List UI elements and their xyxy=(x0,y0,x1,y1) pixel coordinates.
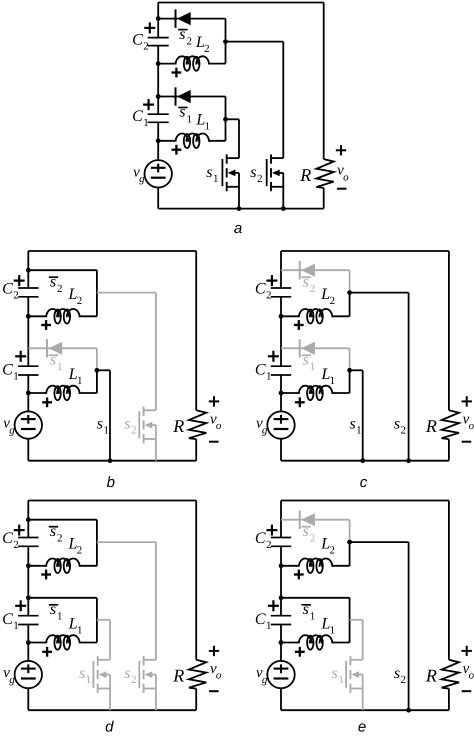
svg-text:1: 1 xyxy=(266,371,272,383)
svg-text:C: C xyxy=(132,108,143,125)
svg-text:o: o xyxy=(469,669,474,681)
svg-text:s: s xyxy=(206,164,212,181)
svg-text:1: 1 xyxy=(266,620,272,632)
svg-text:b: b xyxy=(107,474,115,491)
svg-text:C: C xyxy=(255,530,266,547)
svg-text:1: 1 xyxy=(77,375,83,387)
svg-text:C: C xyxy=(2,281,13,298)
svg-text:1: 1 xyxy=(57,611,63,623)
svg-text:s: s xyxy=(332,665,338,682)
svg-text:s: s xyxy=(179,26,185,43)
svg-text:2: 2 xyxy=(329,545,335,557)
svg-text:2: 2 xyxy=(186,35,192,47)
svg-text:2: 2 xyxy=(401,674,407,686)
svg-text:C: C xyxy=(2,530,13,547)
svg-text:2: 2 xyxy=(266,290,272,302)
svg-text:2: 2 xyxy=(13,539,19,551)
svg-text:R: R xyxy=(299,165,311,185)
svg-text:1: 1 xyxy=(143,117,149,129)
svg-text:R: R xyxy=(425,416,437,436)
svg-text:d: d xyxy=(105,718,114,735)
svg-text:e: e xyxy=(358,718,366,735)
svg-text:s: s xyxy=(250,164,256,181)
svg-text:g: g xyxy=(139,173,145,185)
svg-text:c: c xyxy=(360,474,368,491)
svg-text:2: 2 xyxy=(257,173,263,185)
svg-text:2: 2 xyxy=(13,290,19,302)
svg-text:2: 2 xyxy=(310,533,316,545)
svg-text:1: 1 xyxy=(77,624,83,636)
svg-text:R: R xyxy=(172,416,184,436)
svg-text:2: 2 xyxy=(401,424,407,436)
svg-text:1: 1 xyxy=(13,620,19,632)
svg-text:o: o xyxy=(216,420,222,432)
svg-text:1: 1 xyxy=(356,424,362,436)
svg-text:s: s xyxy=(50,601,56,618)
svg-text:s: s xyxy=(79,665,85,682)
svg-text:1: 1 xyxy=(186,113,192,125)
svg-text:1: 1 xyxy=(338,674,344,686)
svg-text:1: 1 xyxy=(86,674,92,686)
svg-text:2: 2 xyxy=(131,424,137,436)
svg-text:R: R xyxy=(425,665,437,685)
svg-text:1: 1 xyxy=(310,611,316,623)
svg-text:1: 1 xyxy=(310,361,316,373)
svg-text:g: g xyxy=(262,674,268,686)
svg-text:1: 1 xyxy=(13,371,19,383)
svg-text:1: 1 xyxy=(213,173,219,185)
svg-text:2: 2 xyxy=(131,674,137,686)
svg-text:s: s xyxy=(394,415,400,432)
svg-text:s: s xyxy=(124,415,130,432)
svg-text:s: s xyxy=(303,352,309,369)
svg-text:s: s xyxy=(349,415,355,432)
svg-text:g: g xyxy=(9,424,15,436)
svg-text:s: s xyxy=(124,665,130,682)
svg-text:g: g xyxy=(262,424,268,436)
svg-text:C: C xyxy=(2,362,13,379)
svg-text:o: o xyxy=(343,171,349,183)
svg-text:2: 2 xyxy=(77,545,83,557)
svg-text:2: 2 xyxy=(204,43,210,55)
svg-text:2: 2 xyxy=(57,283,63,295)
svg-text:C: C xyxy=(255,281,266,298)
svg-text:2: 2 xyxy=(143,41,149,53)
svg-text:1: 1 xyxy=(57,361,63,373)
svg-text:R: R xyxy=(172,665,184,685)
svg-text:C: C xyxy=(2,611,13,628)
svg-text:s: s xyxy=(394,665,400,682)
svg-text:s: s xyxy=(303,523,309,540)
svg-text:1: 1 xyxy=(103,424,109,436)
svg-text:2: 2 xyxy=(77,295,83,307)
svg-text:1: 1 xyxy=(330,624,336,636)
svg-text:s: s xyxy=(50,352,56,369)
svg-text:s: s xyxy=(50,523,56,540)
svg-text:o: o xyxy=(469,420,474,432)
svg-text:s: s xyxy=(97,415,103,432)
svg-text:C: C xyxy=(132,32,143,49)
svg-text:o: o xyxy=(216,669,222,681)
svg-text:2: 2 xyxy=(310,283,316,295)
svg-text:1: 1 xyxy=(330,375,336,387)
svg-text:s: s xyxy=(303,273,309,290)
svg-text:s: s xyxy=(303,601,309,618)
svg-text:2: 2 xyxy=(329,295,335,307)
svg-text:s: s xyxy=(179,104,185,121)
svg-text:1: 1 xyxy=(205,121,211,133)
svg-text:C: C xyxy=(255,611,266,628)
svg-text:2: 2 xyxy=(57,533,63,545)
svg-text:s: s xyxy=(50,273,56,290)
svg-text:2: 2 xyxy=(266,539,272,551)
svg-text:a: a xyxy=(234,220,242,237)
svg-text:C: C xyxy=(255,362,266,379)
svg-text:g: g xyxy=(9,674,15,686)
